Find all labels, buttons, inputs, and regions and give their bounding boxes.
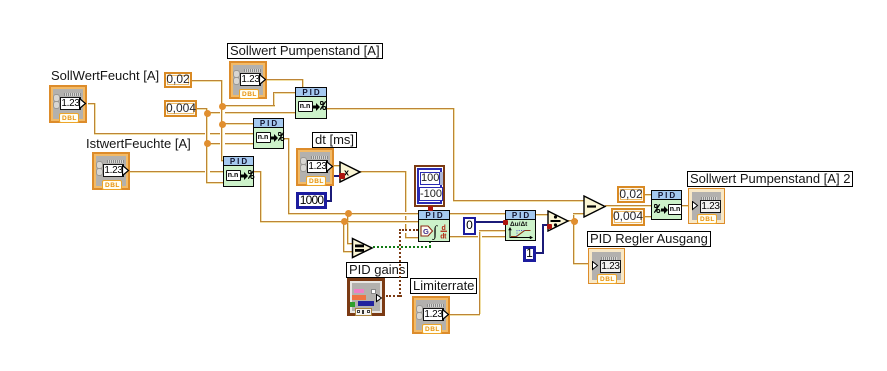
owned label Limiterrate	[410, 278, 477, 294]
wire junction	[345, 210, 352, 217]
owned label Sollwert Pumpenstand [A] 2	[687, 171, 853, 187]
numeric constant 0,02 (2)	[617, 186, 645, 203]
wire	[453, 200, 584, 202]
wire	[207, 112, 220, 114]
wire	[347, 243, 352, 245]
wire	[573, 213, 575, 220]
wire	[221, 80, 223, 162]
PID %%-to-EGU subVI PID4 (% to EGU)	[651, 190, 682, 220]
numeric constant 0,004	[164, 100, 197, 117]
wire	[222, 123, 253, 125]
wire	[94, 133, 205, 135]
svg-text:∫: ∫	[432, 224, 439, 240]
free label SollWertFeucht [A]	[51, 69, 159, 83]
wire	[343, 251, 352, 253]
wire	[334, 165, 340, 167]
cluster wire stub	[429, 206, 431, 211]
wire	[221, 160, 223, 162]
int wire	[476, 221, 504, 223]
boolean wire (dotted green)	[373, 246, 431, 248]
wire	[450, 236, 478, 238]
wire	[302, 79, 304, 87]
numeric control terminal IstwertFeuchte [A]	[92, 152, 130, 190]
wire	[260, 171, 262, 223]
wire	[207, 143, 220, 145]
multiply node	[339, 161, 362, 183]
wire	[405, 233, 407, 238]
wire	[482, 236, 505, 238]
wire	[536, 214, 549, 216]
wire	[260, 221, 418, 223]
PID EGU-to-%% subVI PID2 (SollWertFeucht)	[253, 118, 284, 149]
wire	[206, 108, 208, 184]
owned label PID gains	[346, 262, 408, 278]
wire	[222, 105, 275, 107]
numeric control terminal Limiterrate	[412, 296, 450, 334]
wire	[266, 79, 304, 81]
wire	[288, 138, 290, 215]
numeric control terminal dt [ms]	[296, 148, 334, 186]
wire	[94, 103, 96, 135]
wire	[225, 112, 295, 114]
integer constant 1000	[296, 192, 327, 209]
wire	[197, 108, 208, 110]
equal? node	[351, 237, 374, 259]
divide node	[547, 210, 570, 232]
wire	[479, 230, 481, 314]
wire	[327, 108, 455, 110]
coercion dot	[339, 173, 345, 179]
wire	[225, 133, 253, 135]
PID EGU-to-%% subVI PID1 (Sollwert Pumpenstand)	[295, 87, 327, 119]
svg-text:G: G	[423, 227, 429, 236]
int wire	[327, 200, 332, 202]
wire	[273, 92, 275, 105]
PID gains cluster wire (dotted)	[386, 295, 402, 297]
owned label Sollwert Pumpenstand [A]	[227, 43, 383, 59]
wire	[405, 237, 418, 239]
wire	[645, 194, 651, 196]
wire	[568, 220, 578, 222]
owned label PID Regler Ausgang	[587, 231, 711, 247]
numeric indicator terminal PID Regler Ausgang	[588, 248, 625, 284]
wire	[284, 138, 290, 140]
wire junction	[204, 140, 211, 147]
wire junction	[571, 218, 578, 225]
wire	[206, 182, 223, 184]
coercion dot	[547, 224, 552, 229]
wire	[405, 224, 407, 229]
numeric control terminal Sollwert Pumpenstand [A]	[229, 61, 267, 99]
coercion dot	[503, 220, 508, 225]
wire	[682, 205, 691, 207]
wire	[254, 171, 262, 173]
subtract node	[583, 195, 607, 218]
wire junction	[219, 121, 226, 128]
coercion dot	[428, 206, 433, 211]
wire	[274, 92, 295, 94]
wire	[359, 171, 407, 173]
wire	[225, 143, 253, 145]
wire	[605, 205, 651, 207]
wire	[573, 220, 575, 263]
PID EGU-to-%% subVI PID3 (IstwertFeuchte)	[223, 156, 254, 187]
wire	[405, 171, 407, 212]
wire	[479, 230, 505, 232]
numeric control terminal SollWertFeucht [A]	[49, 85, 87, 123]
numeric constant 0,004 (2)	[611, 208, 645, 226]
owned label dt [ms]	[312, 132, 357, 148]
integer constant 0	[463, 217, 476, 235]
svg-text:dt: dt	[440, 233, 447, 240]
wire	[450, 213, 505, 215]
free label IstwertFeuchte [A]	[86, 137, 191, 151]
int wire	[534, 252, 544, 254]
wire	[192, 80, 223, 82]
wire junction	[341, 218, 348, 225]
wire junction	[219, 103, 226, 110]
PID controller subVI	[418, 210, 450, 242]
wire	[573, 213, 585, 215]
cluster control terminal PID gains	[347, 278, 385, 316]
wire	[210, 171, 223, 173]
wire	[573, 263, 592, 265]
numeric indicator terminal Sollwert Pumpenstand [A] 2	[688, 188, 725, 224]
wire junction	[204, 110, 211, 117]
wire	[210, 133, 220, 135]
cluster constant 100/-100	[414, 165, 445, 207]
wire	[453, 108, 455, 202]
wire	[645, 216, 651, 218]
integer constant 1	[523, 246, 536, 262]
wire	[288, 213, 418, 215]
wire	[405, 216, 407, 220]
PID output rate limiter subVI	[505, 210, 536, 241]
wire	[130, 171, 205, 173]
numeric constant 0,02	[164, 72, 192, 88]
wire	[343, 223, 345, 253]
wire	[88, 103, 96, 105]
wire	[347, 215, 349, 245]
wire	[449, 314, 480, 316]
